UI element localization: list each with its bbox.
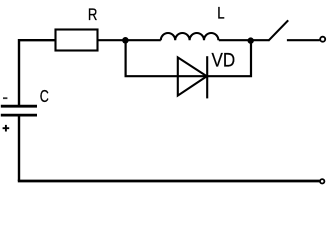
svg-text:VD: VD — [212, 48, 236, 71]
svg-text:L: L — [217, 4, 224, 23]
svg-text:R: R — [88, 6, 98, 25]
svg-text:C: C — [40, 87, 49, 107]
